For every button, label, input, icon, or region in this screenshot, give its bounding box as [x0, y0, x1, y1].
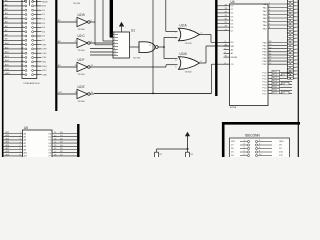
wire: U2:F output to U3:B input	[90, 66, 166, 68]
connector J2 right edge header	[288, 0, 300, 80]
svg-text:GND: GND	[294, 9, 299, 11]
svg-text:GND: GND	[294, 20, 299, 22]
schematic sheet right border	[297, 0, 299, 157]
svg-text:U4: U4	[231, 0, 235, 4]
svg-text:RD: RD	[231, 42, 235, 44]
wire: U3:A output to U4 RD pin	[200, 35, 230, 43]
gate U3:A 74LS32 OR	[175, 24, 202, 45]
svg-text:OUT: OUT	[58, 92, 63, 94]
wire: long vertical net to OUT wire (x=153)	[152, 0, 154, 93]
wires: J1 right-side pin stubs with net labels	[34, 1, 48, 76]
wires: U5 left address pins	[3, 131, 28, 158]
svg-text:U5: U5	[24, 126, 28, 130]
svg-text:RESET: RESET	[231, 57, 239, 59]
svg-text:74LS32: 74LS32	[185, 71, 193, 73]
svg-text:8255A: 8255A	[230, 106, 237, 109]
inverter U2:C 74LS04	[77, 34, 93, 52]
svg-text:74LS04: 74LS04	[73, 3, 81, 5]
wires: J1 top pins going up off-sheet	[25, 0, 37, 6]
connector IDECONN	[230, 134, 290, 159]
svg-text:GND: GND	[5, 73, 10, 75]
svg-text:GND: GND	[294, 78, 299, 80]
wires: U4 port A pins PA0-PA7	[263, 3, 287, 31]
svg-text:CONN-AMP34.00: CONN-AMP34.00	[23, 82, 40, 85]
svg-text:IDECONN: IDECONN	[245, 134, 260, 138]
wire: thick vertical bus into U1 (x=111)	[110, 0, 113, 37]
svg-text:U1: U1	[131, 29, 135, 33]
wires: U4 port C pins PC0-PC7 with net labels	[262, 70, 292, 95]
svg-text:U2:B: U2:B	[78, 13, 85, 17]
junction: x=153 on OUT wire	[152, 93, 154, 95]
svg-text:GND: GND	[294, 71, 299, 73]
wires: nets into U1 pin rows from thick bus	[90, 35, 113, 56]
svg-text:GND: GND	[294, 52, 299, 54]
svg-text:GND: GND	[294, 24, 299, 26]
svg-text:GND: GND	[294, 2, 299, 4]
wire: input net OUT to U2:E	[56, 93, 77, 95]
IC U1 74LS30 pin box	[113, 29, 135, 59]
wire: net A elbow into U3:A	[166, 31, 178, 33]
svg-text:74LS04: 74LS04	[78, 74, 86, 76]
svg-text:74LS04: 74LS04	[78, 50, 86, 52]
wires: U4 port B pins PB0-PB7	[263, 41, 287, 66]
resistor R1	[155, 152, 163, 158]
resistor R2	[186, 150, 194, 158]
svg-text:GND: GND	[294, 74, 299, 76]
wire: VCC to pull-up resistors	[157, 148, 189, 152]
svg-text:74LS32: 74LS32	[185, 43, 193, 45]
svg-text:IOR: IOR	[42, 44, 46, 46]
wires: U4 data pins D0-D7 from bus	[217, 4, 234, 32]
wire: thick vertical bus at U5 right (x=78)	[77, 124, 79, 157]
svg-text:GND: GND	[294, 56, 299, 58]
svg-text:B02R: B02R	[42, 1, 48, 3]
svg-text:GND: GND	[294, 5, 299, 7]
wire: input net A5 to U2:F	[56, 66, 77, 68]
svg-text:74LS30: 74LS30	[133, 58, 141, 60]
wire: U2:E output long net to U4 CS	[90, 64, 229, 94]
svg-text:GND: GND	[294, 13, 299, 15]
svg-text:GND: GND	[294, 27, 299, 29]
svg-text:DRQ: DRQ	[42, 66, 47, 68]
svg-text:IOW: IOW	[42, 49, 46, 51]
schematic sheet left border	[2, 0, 4, 157]
svg-text:GND: GND	[294, 42, 299, 44]
inverter U2:F 74LS04	[77, 58, 94, 76]
svg-text:U2:C: U2:C	[78, 34, 86, 38]
sheet partition border bottom-right	[222, 122, 300, 157]
svg-text:RST: RST	[231, 141, 236, 143]
svg-text:GND: GND	[294, 45, 299, 47]
IC U5	[23, 126, 53, 160]
power VCC arrow at U1	[116, 22, 126, 32]
svg-text:U3:A: U3:A	[180, 24, 188, 28]
connector J1 CONN-AMP34	[22, 0, 37, 79]
wires: J1 left-side signal wires to border	[3, 0, 25, 75]
wire: U3:B output to U4 WR pin	[200, 46, 230, 63]
svg-text:U2:E: U2:E	[78, 85, 85, 89]
wire: U2:C output to U1 pin	[90, 42, 113, 44]
svg-text:GND: GND	[279, 141, 284, 143]
svg-text:RDY: RDY	[42, 70, 47, 72]
svg-text:GND: GND	[294, 31, 299, 33]
inverter U2:B 74LS04	[77, 13, 93, 31]
svg-text:GND: GND	[294, 67, 299, 69]
wires: U5 right data pins to bus	[48, 132, 77, 158]
svg-text:U3:B: U3:B	[180, 52, 187, 56]
wire: vertical net into U1 (x=103)	[102, 0, 104, 41]
svg-text:GND: GND	[42, 74, 47, 76]
power VCC arrow bottom	[185, 132, 190, 149]
wire: input net A6 to U2:C	[56, 42, 77, 44]
wire: U1 output node to U3 inputs	[158, 37, 177, 58]
inverter U2:E 74LS04	[77, 85, 94, 103]
svg-text:GND: GND	[294, 34, 299, 36]
svg-text:GND: GND	[294, 16, 299, 18]
IC U4 8255A	[230, 0, 269, 109]
svg-text:GND: GND	[294, 63, 299, 65]
svg-text:74LS04: 74LS04	[78, 29, 86, 31]
wires: U4 control pins RD WR A0 A1 RESET CS	[224, 41, 239, 66]
wire: U2:B output to U1 pin via x=95	[90, 21, 95, 23]
svg-text:GND: GND	[294, 38, 299, 40]
svg-text:GND: GND	[294, 49, 299, 51]
svg-text:WR: WR	[231, 46, 235, 48]
wire: input net A7 to U2:B	[56, 21, 77, 23]
svg-text:RST: RST	[5, 69, 10, 71]
wire: net A from top to U3:A input	[165, 0, 167, 32]
gate U1 74LS30 8-input NAND body	[130, 42, 159, 60]
wire: thick vertical data bus (x=216)	[215, 0, 217, 96]
svg-text:U2:F: U2:F	[78, 58, 85, 62]
svg-text:74LS04: 74LS04	[78, 101, 86, 103]
svg-text:IRQ: IRQ	[42, 62, 46, 64]
wire: thick vertical bus net OUT (x=56)	[55, 0, 57, 111]
svg-text:GND: GND	[294, 60, 299, 62]
gate U3:B 74LS32 OR	[175, 52, 202, 73]
